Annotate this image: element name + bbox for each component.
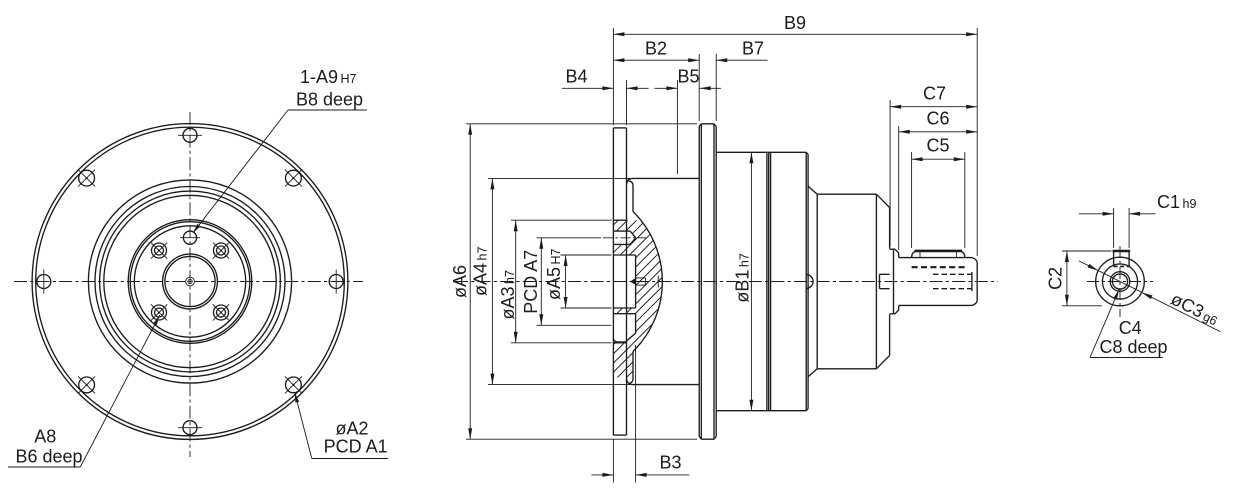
svg-text:B5: B5 — [677, 67, 699, 87]
svg-text:C7: C7 — [923, 84, 946, 104]
bolt hole A2 bottom — [178, 421, 202, 435]
dimension øA6 — [450, 124, 472, 439]
svg-text:B9: B9 — [784, 13, 806, 33]
dimension C2 — [1046, 251, 1112, 306]
main body øB1 — [716, 152, 808, 410]
centerline vertical — [189, 112, 191, 457]
section view centerline — [455, 281, 998, 283]
dimension B4 — [562, 67, 649, 91]
housing cylinder øA4 — [627, 178, 700, 384]
rear face / input flange — [876, 194, 889, 369]
rear housing section — [808, 186, 876, 376]
leader C4 / C8 deep — [1090, 289, 1168, 357]
bolt hole A2 left — [37, 270, 51, 294]
dimension PCD A7 — [521, 238, 543, 325]
bore øA3 edges — [613, 220, 626, 343]
svg-text:øA6: øA6 — [450, 265, 470, 298]
svg-text:PCD A7: PCD A7 — [521, 250, 541, 314]
svg-text:B6 deep: B6 deep — [16, 446, 83, 466]
leader 1-A9 — [193, 110, 367, 233]
dimension B2 — [613, 39, 699, 63]
front view: flange face — [14, 112, 363, 457]
housing joint lines — [767, 152, 771, 410]
circle (step) — [104, 195, 276, 367]
hub circle A5 — [163, 254, 218, 309]
dowel hole A9 (section) — [613, 231, 635, 244]
shaft circle øC3 — [1096, 257, 1145, 306]
svg-text:B4: B4 — [565, 67, 587, 87]
svg-text:PCD A1: PCD A1 — [324, 437, 388, 457]
dimension øC3 g6 — [1079, 261, 1222, 332]
circle A4 spigot — [88, 180, 291, 383]
keyway hidden line — [912, 266, 965, 268]
tapped hole C4 circles — [1110, 272, 1130, 292]
tapped hole recess (bottom, section) — [613, 314, 635, 342]
svg-text:øA2: øA2 — [336, 419, 369, 439]
tapped hole A8 NE — [213, 242, 229, 258]
chamfer circle — [1102, 264, 1137, 299]
centerline horizontal — [14, 281, 363, 283]
center mark circles — [186, 277, 195, 286]
flange outer circle — [36, 127, 345, 436]
svg-text:C2: C2 — [1046, 267, 1066, 290]
plug at joint — [806, 275, 813, 289]
coupling detail at rear face — [880, 274, 890, 288]
keyway on end view — [1113, 251, 1131, 266]
circle A3 bore — [128, 220, 252, 344]
dimension B3 — [592, 345, 690, 483]
key on shaft — [912, 251, 965, 258]
dimension C5 — [912, 136, 965, 162]
dimension B9 — [613, 13, 977, 36]
svg-text:C5: C5 — [926, 136, 949, 156]
extension lines left dims — [466, 124, 697, 439]
hub circle inner — [165, 256, 215, 306]
center hole hidden lines — [933, 274, 976, 288]
svg-text:B7: B7 — [742, 39, 764, 59]
tapped hole A8 NW — [151, 242, 167, 258]
dimension B5 — [654, 67, 721, 91]
bolt hole A2 SW (crossed) — [78, 376, 95, 393]
A9 hole centerline — [603, 237, 646, 239]
inner circle — [134, 226, 245, 337]
extension lines top dims — [613, 28, 977, 256]
leader A2/PCD A1 — [295, 392, 389, 459]
bolt hole A2 right — [329, 270, 343, 294]
dimension øA5 H7 — [544, 248, 568, 308]
ring gear housing (øA6 dia, B7 wide) — [699, 124, 716, 439]
centerlines — [1087, 281, 1153, 283]
bore øA5 (section) — [613, 255, 635, 308]
bolt hole A2 NE (crossed) — [285, 170, 302, 187]
svg-text:C4: C4 — [1119, 318, 1142, 338]
center pin in bore — [630, 278, 646, 285]
leader A8 — [8, 315, 160, 467]
dimension øA4 h7 — [470, 178, 494, 384]
circle (step) — [95, 187, 285, 377]
output boss (bell) outline — [629, 181, 663, 384]
svg-text:B8 deep: B8 deep — [296, 90, 363, 110]
tapped hole A8 SE — [213, 304, 229, 320]
circle (step) — [100, 191, 281, 372]
dimension øA3 h7 — [498, 220, 518, 343]
bolt hole A2 top (PCD A1) — [178, 128, 202, 142]
circle A3 chamfer — [130, 222, 250, 342]
svg-text:B2: B2 — [645, 39, 667, 59]
flange plate (B4 thick, øA6 dia) — [613, 128, 626, 435]
bolt hole A2 NW (crossed) — [78, 170, 95, 187]
tapped hole A8 SW — [151, 304, 167, 320]
input shaft collar — [890, 249, 899, 314]
svg-text:C6: C6 — [926, 108, 949, 128]
dimension C6 — [899, 108, 978, 133]
dimension øB1 h7 — [732, 152, 753, 410]
dimension B7 — [716, 39, 767, 63]
input shaft — [899, 258, 978, 306]
dimension C1 h9 — [1079, 192, 1196, 248]
svg-text:A8: A8 — [34, 426, 56, 446]
svg-text:B3: B3 — [659, 452, 681, 472]
bolt hole A2 SE (crossed) — [285, 376, 302, 393]
shaft end view — [1087, 246, 1153, 317]
outer circle A6 — [32, 124, 348, 440]
dimension C7 — [890, 84, 977, 109]
svg-text:C8 deep: C8 deep — [1100, 337, 1168, 357]
dowel hole 1-A9 top — [180, 231, 200, 244]
